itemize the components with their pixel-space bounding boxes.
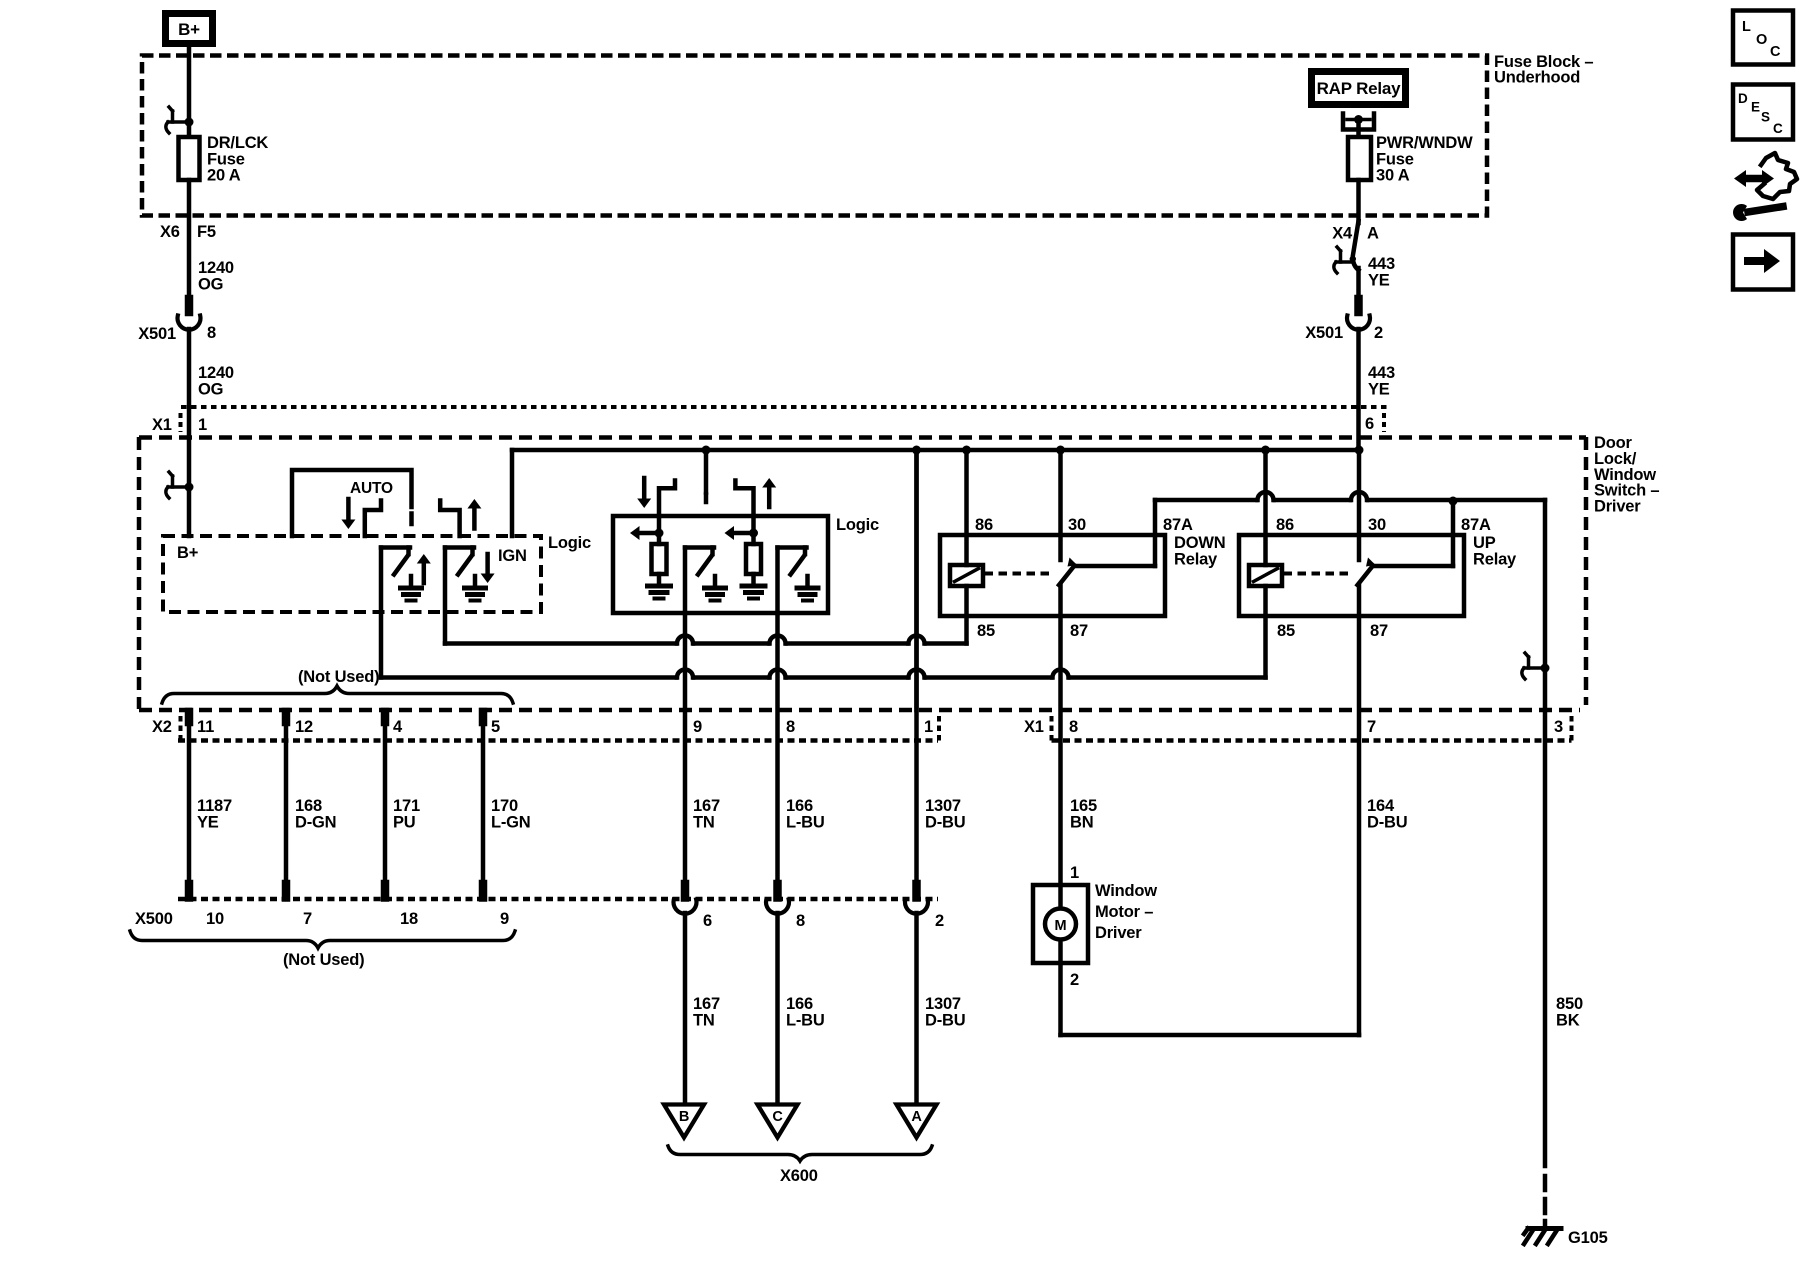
- svg-text:YE: YE: [197, 813, 219, 831]
- svg-text:1307: 1307: [925, 995, 961, 1013]
- svg-text:Driver: Driver: [1095, 924, 1142, 942]
- svg-text:S: S: [1761, 110, 1770, 125]
- svg-text:167: 167: [693, 995, 720, 1013]
- svg-text:20 A: 20 A: [207, 167, 241, 185]
- svg-text:10: 10: [206, 910, 224, 928]
- svg-text:D-BU: D-BU: [1367, 813, 1407, 831]
- svg-text:Fuse: Fuse: [1376, 150, 1414, 168]
- svg-text:L-BU: L-BU: [786, 813, 825, 831]
- svg-text:87: 87: [1370, 622, 1388, 640]
- svg-text:443: 443: [1368, 255, 1395, 273]
- svg-text:9: 9: [500, 910, 509, 928]
- svg-text:8: 8: [786, 718, 795, 736]
- svg-text:8: 8: [1069, 718, 1078, 736]
- svg-text:C: C: [1770, 44, 1781, 60]
- svg-text:TN: TN: [693, 813, 715, 831]
- svg-text:B: B: [679, 1109, 689, 1125]
- svg-text:170: 170: [491, 797, 518, 815]
- svg-text:D-BU: D-BU: [925, 813, 965, 831]
- svg-text:87A: 87A: [1163, 516, 1193, 534]
- svg-text:YE: YE: [1368, 380, 1390, 398]
- svg-text:443: 443: [1368, 364, 1395, 382]
- svg-text:L-BU: L-BU: [786, 1011, 825, 1029]
- svg-text:Relay: Relay: [1473, 550, 1517, 568]
- svg-text:30: 30: [1068, 516, 1086, 534]
- svg-text:8: 8: [796, 912, 805, 930]
- svg-text:1240: 1240: [198, 259, 234, 277]
- svg-text:171: 171: [393, 797, 420, 815]
- svg-text:165: 165: [1070, 797, 1097, 815]
- svg-text:X600: X600: [780, 1167, 818, 1185]
- svg-text:Relay: Relay: [1174, 550, 1218, 568]
- svg-text:30 A: 30 A: [1376, 167, 1410, 185]
- svg-text:Underhood: Underhood: [1494, 69, 1580, 87]
- svg-text:164: 164: [1367, 797, 1395, 815]
- svg-text:3: 3: [1554, 718, 1563, 736]
- svg-text:167: 167: [693, 797, 720, 815]
- svg-text:AUTO: AUTO: [350, 480, 393, 497]
- svg-text:D: D: [1738, 91, 1748, 106]
- svg-text:BK: BK: [1556, 1011, 1580, 1029]
- svg-text:168: 168: [295, 797, 322, 815]
- svg-text:X6: X6: [160, 223, 180, 241]
- svg-text:C: C: [772, 1109, 783, 1125]
- svg-text:1240: 1240: [198, 364, 234, 382]
- svg-text:(Not Used): (Not Used): [283, 951, 364, 969]
- svg-text:2: 2: [1070, 971, 1079, 989]
- svg-text:30: 30: [1368, 516, 1386, 534]
- svg-text:F5: F5: [197, 223, 216, 241]
- svg-text:A: A: [911, 1109, 922, 1125]
- svg-text:1: 1: [198, 416, 207, 434]
- svg-text:RAP Relay: RAP Relay: [1317, 79, 1402, 98]
- svg-text:IGN: IGN: [498, 547, 527, 565]
- svg-text:166: 166: [786, 797, 813, 815]
- svg-text:D-GN: D-GN: [295, 813, 336, 831]
- svg-text:7: 7: [1367, 718, 1376, 736]
- svg-text:A: A: [1367, 225, 1379, 243]
- svg-text:2: 2: [1374, 324, 1383, 342]
- svg-text:6: 6: [1365, 415, 1374, 433]
- svg-text:X2: X2: [152, 718, 172, 736]
- svg-text:7: 7: [303, 910, 312, 928]
- svg-text:87: 87: [1070, 622, 1088, 640]
- svg-text:PWR/WNDW: PWR/WNDW: [1376, 134, 1473, 152]
- svg-text:2: 2: [935, 912, 944, 930]
- svg-text:L-GN: L-GN: [491, 813, 531, 831]
- svg-text:X1: X1: [152, 416, 172, 434]
- svg-text:OG: OG: [198, 275, 223, 293]
- svg-text:Logic: Logic: [548, 534, 591, 552]
- svg-text:O: O: [1756, 32, 1767, 48]
- svg-text:Motor –: Motor –: [1095, 903, 1153, 921]
- svg-text:M: M: [1055, 918, 1067, 934]
- svg-text:DR/LCK: DR/LCK: [207, 134, 268, 152]
- svg-text:4: 4: [393, 718, 403, 736]
- svg-text:YE: YE: [1368, 271, 1390, 289]
- svg-text:85: 85: [977, 622, 995, 640]
- svg-text:X1: X1: [1024, 718, 1044, 736]
- svg-text:850: 850: [1556, 995, 1583, 1013]
- svg-text:G105: G105: [1568, 1229, 1608, 1247]
- svg-text:11: 11: [197, 718, 214, 736]
- svg-text:B+: B+: [177, 544, 198, 562]
- svg-text:DOWN: DOWN: [1174, 534, 1225, 552]
- svg-text:Logic: Logic: [836, 516, 879, 534]
- svg-text:8: 8: [207, 324, 216, 342]
- svg-text:E: E: [1751, 100, 1760, 115]
- svg-text:X500: X500: [135, 910, 173, 928]
- svg-text:X501: X501: [1305, 324, 1343, 342]
- svg-text:BN: BN: [1070, 813, 1093, 831]
- svg-text:85: 85: [1277, 622, 1295, 640]
- svg-text:166: 166: [786, 995, 813, 1013]
- svg-text:12: 12: [295, 718, 313, 736]
- svg-text:OG: OG: [198, 380, 223, 398]
- svg-text:1187: 1187: [197, 797, 232, 815]
- svg-text:X501: X501: [138, 325, 176, 343]
- svg-text:5: 5: [491, 718, 500, 736]
- svg-text:TN: TN: [693, 1011, 715, 1029]
- svg-text:X4: X4: [1332, 225, 1353, 243]
- svg-text:B+: B+: [178, 20, 200, 39]
- svg-text:Fuse: Fuse: [207, 150, 245, 168]
- svg-text:87A: 87A: [1461, 516, 1491, 534]
- svg-text:Driver: Driver: [1594, 498, 1641, 516]
- svg-text:18: 18: [400, 910, 418, 928]
- svg-text:9: 9: [693, 718, 702, 736]
- svg-text:C: C: [1773, 121, 1783, 136]
- svg-text:Window: Window: [1095, 882, 1157, 900]
- svg-text:L: L: [1742, 19, 1751, 35]
- svg-text:(Not Used): (Not Used): [298, 668, 379, 686]
- svg-text:86: 86: [975, 516, 993, 534]
- svg-text:PU: PU: [393, 813, 416, 831]
- svg-text:1307: 1307: [925, 797, 961, 815]
- svg-text:6: 6: [703, 912, 712, 930]
- svg-text:86: 86: [1276, 516, 1294, 534]
- svg-text:1: 1: [924, 718, 933, 736]
- svg-text:UP: UP: [1473, 534, 1496, 552]
- svg-text:1: 1: [1070, 864, 1079, 882]
- svg-text:D-BU: D-BU: [925, 1011, 965, 1029]
